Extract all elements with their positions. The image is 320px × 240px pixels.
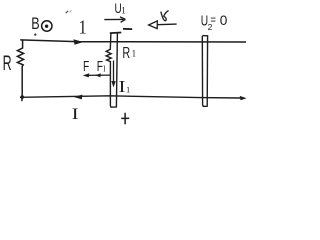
current I1 arrow inside rod [113,61,115,83]
field B dot-circle symbol [42,21,52,31]
current I arrowhead on bottom rail [73,95,82,100]
svg-text:=: = [210,13,216,27]
svg-text:F: F [97,58,103,75]
force arrows F / Fl [85,74,111,76]
stray pen marks [66,11,69,13]
wire top rail [20,40,246,42]
rod 2 [202,36,207,107]
arrow under U1 [104,18,123,20]
arrowhead at right end of bottom rail [240,96,247,100]
stray dot below B [34,34,36,36]
svg-text:I: I [119,77,126,96]
velocity v glyph [161,11,169,21]
svg-text:R: R [122,45,130,62]
svg-text:1: 1 [79,16,87,38]
minus polarity (top of rod 1) [123,28,132,30]
rod 1 top cap [110,32,122,35]
wire bottom rail [20,96,240,98]
svg-text:I: I [72,106,79,123]
svg-text:R: R [3,52,12,75]
svg-text:1: 1 [132,49,137,59]
svg-text:1: 1 [126,85,130,95]
svg-text:F: F [83,58,89,75]
plus polarity (bottom of rod 1) [121,113,129,124]
junction dot bottom-left [20,95,24,99]
velocity arrow (open head, pointing left) [157,23,176,26]
current I arrowhead on top rail [73,39,83,45]
resistor R (left branch with zigzag) [17,40,23,101]
svg-text:1: 1 [121,6,126,16]
svg-text:B: B [31,14,39,33]
svg-text:0: 0 [220,12,228,28]
rod 1 left side with R1 zigzag [106,33,117,107]
